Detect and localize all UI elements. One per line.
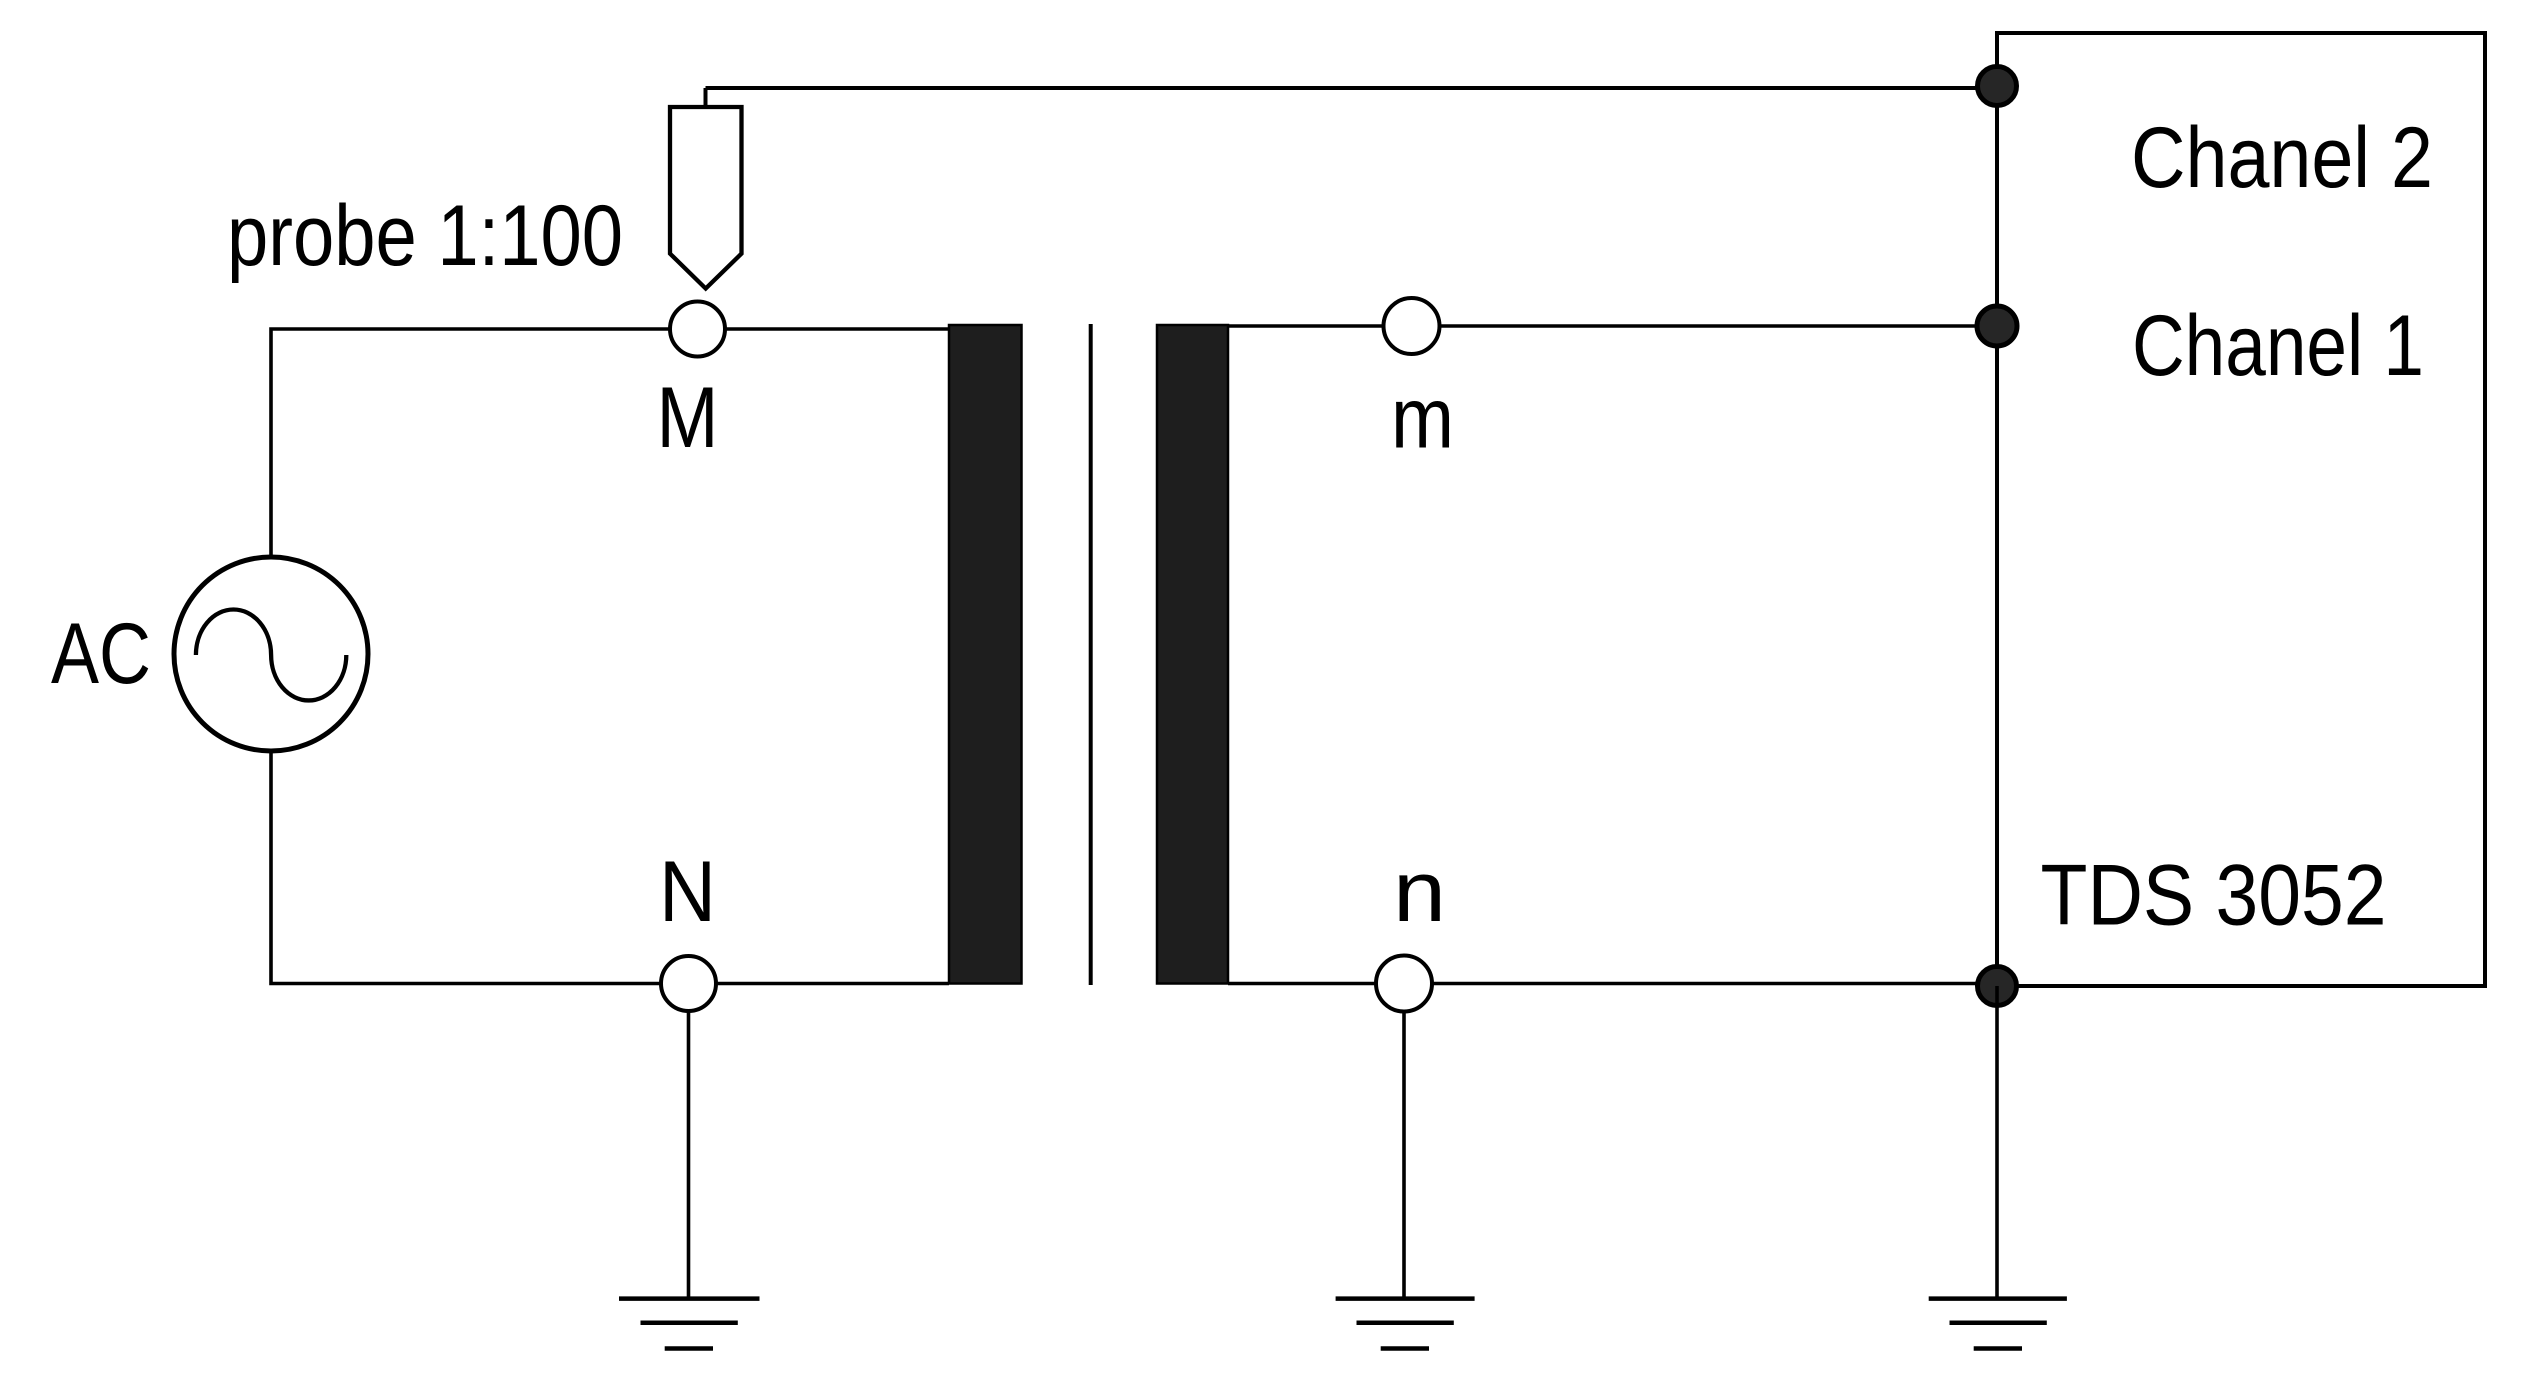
node m terminal circle <box>1384 298 1440 354</box>
node M terminal circle <box>670 302 725 357</box>
wire: probe top stub <box>704 88 708 110</box>
node n terminal circle <box>1376 956 1432 1012</box>
node N terminal circle <box>661 956 716 1011</box>
wire: AC bottom vertical and bottom-left horizontal to transformer <box>271 751 949 984</box>
AC sine wave <box>196 610 346 701</box>
oscilloscope box TDS 3052 <box>1997 33 2485 986</box>
wire: n row horizontal (secondary bottom to scope) <box>1228 982 1997 986</box>
svg-text:m: m <box>1391 371 1454 467</box>
wire: m row horizontal (secondary to Chanel 1) <box>1228 324 1997 328</box>
svg-text:AC: AC <box>51 606 151 702</box>
svg-text:Chanel 1: Chanel 1 <box>2132 298 2424 394</box>
ground under N <box>619 1299 760 1349</box>
transformer T1 secondary bar <box>1157 325 1228 984</box>
transformer T1 primary bar <box>949 325 1022 984</box>
svg-text:N: N <box>659 844 716 940</box>
svg-text:M: M <box>657 370 719 466</box>
junction dot scope ground <box>1978 967 2017 1006</box>
svg-text:n: n <box>1393 844 1446 940</box>
svg-text:Chanel 2: Chanel 2 <box>2131 110 2433 206</box>
ground under n <box>1336 1299 1475 1349</box>
wire: n to ground <box>1402 1012 1406 1300</box>
probe 1:100 probe symbol <box>670 107 742 289</box>
wire: top wire from probe to Chanel 2 input <box>706 86 1998 90</box>
junction dot Chanel 1 input <box>1977 306 2017 346</box>
wire: N to ground <box>687 1011 691 1299</box>
transformer core line <box>1089 324 1093 985</box>
svg-text:probe 1:100: probe 1:100 <box>227 188 623 284</box>
wire: M row horizontal, AC top vertical <box>271 329 949 557</box>
AC source U1 <box>174 557 368 751</box>
junction dot Chanel 2 input <box>1978 67 2017 106</box>
ground under scope <box>1929 1299 2067 1349</box>
svg-text:TDS 3052: TDS 3052 <box>2041 848 2387 944</box>
wire: scope to ground <box>1995 986 1999 1299</box>
